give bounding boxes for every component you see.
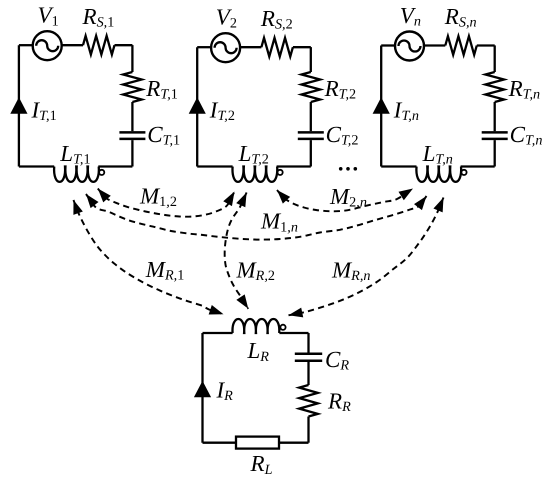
svg-text:RT,2: RT,2	[324, 76, 357, 103]
svg-text:MR,1: MR,1	[145, 257, 184, 284]
svg-text:CT,1: CT,1	[147, 122, 180, 149]
svg-text:MR,2: MR,2	[236, 257, 275, 284]
svg-text:IT,1: IT,1	[31, 98, 57, 125]
svg-text:IT,n: IT,n	[393, 98, 419, 125]
svg-text:LT,n: LT,n	[422, 141, 453, 168]
svg-text:LT,1: LT,1	[59, 141, 90, 168]
svg-text:M2,n: M2,n	[329, 184, 367, 211]
svg-text:RR: RR	[327, 389, 351, 416]
svg-text:M1,n: M1,n	[260, 209, 298, 236]
svg-text:MR,n: MR,n	[331, 257, 370, 284]
svg-text:LR: LR	[247, 338, 270, 365]
svg-text:LT,2: LT,2	[238, 141, 269, 168]
svg-text:RS,1: RS,1	[82, 4, 115, 31]
svg-text:RT,n: RT,n	[508, 76, 541, 103]
svg-text:RS,n: RS,n	[444, 4, 477, 31]
svg-text:RL: RL	[250, 451, 273, 478]
svg-text:IT,2: IT,2	[209, 98, 235, 125]
svg-text:RT,1: RT,1	[145, 76, 178, 103]
svg-text:CR: CR	[325, 347, 349, 374]
svg-text:CT,n: CT,n	[510, 122, 543, 149]
svg-text:V1: V1	[38, 3, 59, 30]
svg-text:IR: IR	[216, 378, 234, 405]
svg-text:CT,2: CT,2	[326, 122, 359, 149]
svg-text:M1,2: M1,2	[139, 183, 177, 210]
svg-text:V2: V2	[216, 5, 237, 32]
svg-text:Vn: Vn	[400, 3, 421, 30]
svg-text:RS,2: RS,2	[260, 6, 293, 33]
